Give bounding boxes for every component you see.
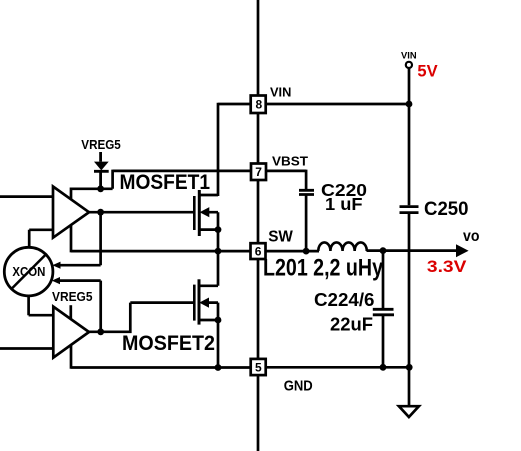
svg-text:VIN: VIN: [270, 85, 291, 100]
svg-text:3.3V: 3.3V: [427, 258, 467, 276]
svg-text:VREG5: VREG5: [52, 289, 93, 304]
svg-text:VREG5: VREG5: [81, 137, 121, 152]
svg-text:C250: C250: [424, 199, 469, 220]
svg-text:L201 2,2 uHy: L201 2,2 uHy: [263, 254, 384, 281]
svg-text:8: 8: [255, 98, 262, 112]
svg-text:MOSFET2: MOSFET2: [122, 332, 215, 355]
svg-text:VIN: VIN: [401, 51, 417, 61]
svg-text:XCON: XCON: [12, 265, 45, 279]
svg-text:vo: vo: [463, 228, 480, 245]
svg-text:1 uF: 1 uF: [325, 194, 363, 214]
svg-text:SW: SW: [268, 228, 293, 245]
svg-text:22uF: 22uF: [330, 315, 373, 335]
svg-text:VBST: VBST: [272, 154, 308, 169]
svg-text:5: 5: [255, 360, 262, 374]
svg-text:6: 6: [255, 244, 262, 258]
svg-text:MOSFET1: MOSFET1: [120, 171, 211, 194]
svg-text:5V: 5V: [417, 63, 437, 81]
svg-text:7: 7: [255, 165, 262, 179]
svg-text:C224/6: C224/6: [314, 290, 375, 310]
svg-text:GND: GND: [284, 378, 313, 395]
